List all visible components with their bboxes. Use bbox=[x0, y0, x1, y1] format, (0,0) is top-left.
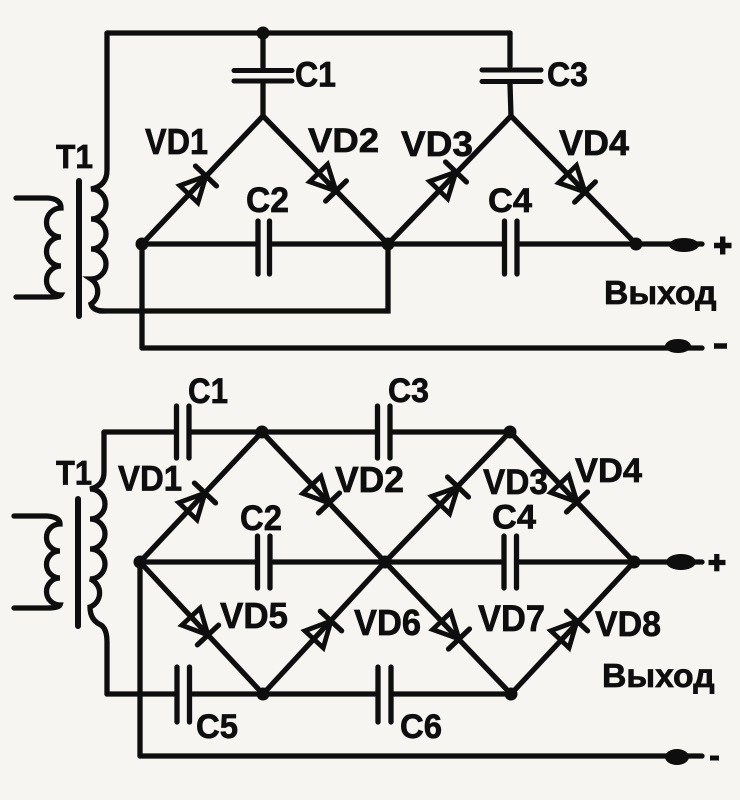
diode VD7 bbox=[431, 611, 469, 649]
wire top rail bbox=[107, 30, 510, 35]
svg-text:VD2: VD2 bbox=[308, 122, 379, 160]
wire edge VD3 bbox=[385, 432, 510, 562]
wire edge VD1 bbox=[140, 432, 262, 562]
node junction left vertex bbox=[134, 556, 147, 569]
svg-text:C1: C1 bbox=[295, 56, 336, 95]
svg-text:C6: C6 bbox=[400, 708, 442, 746]
svg-text:T1: T1 bbox=[56, 455, 92, 493]
capacitor C6 bbox=[378, 667, 391, 722]
minus sign bottom circuit bbox=[710, 756, 719, 761]
wire edge VD4 bbox=[510, 432, 634, 562]
svg-text:VD1: VD1 bbox=[145, 121, 208, 162]
wire mid rail segment C bbox=[519, 241, 702, 246]
transformer T1 primary winding bbox=[16, 198, 61, 297]
capacitor C5 bbox=[177, 667, 190, 722]
capacitor C2 (bottom) bbox=[258, 536, 271, 588]
svg-text:VD6: VD6 bbox=[354, 602, 421, 643]
node junction center vertex bbox=[379, 556, 392, 569]
svg-text:C1: C1 bbox=[188, 372, 228, 411]
wire bottom rail segment C bbox=[393, 691, 511, 696]
wire top rail (bottom circuit) segment B bbox=[192, 429, 376, 434]
diode VD1 bbox=[178, 166, 216, 204]
diode VD4 (bottom) bbox=[549, 474, 587, 512]
svg-text:Выход: Выход bbox=[602, 657, 715, 694]
capacitor C4 bbox=[505, 221, 518, 274]
node junction bottom vertex 2 bbox=[505, 688, 518, 701]
svg-text:C3: C3 bbox=[547, 56, 588, 94]
node junction right vertex bbox=[628, 556, 641, 569]
diode VD4 bbox=[557, 164, 595, 202]
capacitor C4 (bottom) bbox=[504, 536, 517, 588]
diode VD3 (bottom) bbox=[430, 477, 468, 515]
output terminal minus bbox=[665, 339, 691, 353]
svg-text:C4: C4 bbox=[492, 499, 536, 537]
node junction top vertex 2 bbox=[504, 426, 517, 439]
wire left drop to minus rail bbox=[139, 244, 144, 348]
wire C1 stub lower bbox=[260, 84, 265, 116]
wire edge VD6 bbox=[263, 562, 385, 694]
wire mid rail (bottom circuit) segment C bbox=[519, 559, 702, 564]
svg-text:C3: C3 bbox=[388, 372, 429, 410]
svg-text:VD1: VD1 bbox=[118, 460, 182, 499]
wire leg VD1 bbox=[142, 116, 263, 244]
plus sign top circuit bbox=[714, 237, 732, 255]
diode VD5 bbox=[180, 607, 218, 645]
capacitor C3 (bottom) bbox=[378, 406, 391, 458]
node junction at C1 top bbox=[257, 27, 270, 40]
wire bottom rail segment A bbox=[107, 691, 175, 696]
svg-text:C4: C4 bbox=[488, 182, 532, 220]
plus sign bottom circuit bbox=[709, 554, 726, 571]
svg-text:Выход: Выход bbox=[604, 274, 717, 311]
svg-text:VD3: VD3 bbox=[401, 125, 473, 164]
wire edge VD7 bbox=[385, 562, 511, 694]
wire minus rail bbox=[142, 345, 702, 350]
output terminal plus bbox=[669, 238, 699, 252]
wire minus rail (bottom) bbox=[140, 753, 702, 758]
wire left drop to minus rail (bottom) bbox=[137, 562, 142, 756]
transformer T1 primary winding (bottom) bbox=[14, 516, 60, 608]
wire leg VD2 bbox=[263, 116, 388, 244]
svg-text:C2: C2 bbox=[246, 181, 289, 220]
wire C3 stub upper bbox=[507, 33, 512, 66]
svg-text:VD2: VD2 bbox=[335, 459, 404, 500]
diode VD2 bbox=[308, 163, 346, 201]
svg-text:VD5: VD5 bbox=[220, 595, 288, 636]
node junction left bbox=[136, 238, 149, 251]
svg-text:C2: C2 bbox=[240, 499, 282, 538]
wire mid rail (bottom circuit) segment A bbox=[140, 559, 255, 564]
capacitor C1 bbox=[234, 71, 292, 82]
node junction top vertex 1 bbox=[256, 426, 269, 439]
svg-text:T1: T1 bbox=[56, 138, 93, 175]
wire edge VD2 bbox=[262, 432, 385, 562]
transformer T1 secondary winding bbox=[91, 33, 107, 311]
wire top rail (bottom circuit) segment A bbox=[104, 429, 174, 434]
wire leg VD3 bbox=[388, 116, 511, 244]
transformer T1 core bbox=[76, 181, 82, 316]
output terminal minus (bottom) bbox=[665, 749, 689, 765]
svg-text:VD4: VD4 bbox=[559, 124, 630, 163]
wire top rail (bottom circuit) segment C bbox=[393, 429, 511, 434]
svg-text:VD8: VD8 bbox=[595, 605, 661, 644]
output terminal plus (bottom) bbox=[666, 554, 696, 570]
svg-text:VD3: VD3 bbox=[483, 463, 548, 502]
diode VD8 bbox=[549, 611, 587, 649]
wire leg VD4 bbox=[511, 116, 636, 244]
wire mid rail (bottom circuit) segment B bbox=[273, 559, 503, 564]
node junction middle bbox=[382, 238, 395, 251]
diode VD1 (bottom) bbox=[177, 483, 215, 521]
capacitor C1 (bottom) bbox=[177, 406, 190, 458]
diode VD2 (bottom) bbox=[301, 475, 339, 513]
svg-text:C5: C5 bbox=[196, 708, 238, 746]
svg-text:VD7: VD7 bbox=[478, 598, 545, 639]
transformer T1 core (bottom) bbox=[75, 499, 81, 626]
diode VD3 bbox=[428, 162, 466, 200]
wire mid rail segment B bbox=[272, 241, 502, 246]
wire mid rail segment A bbox=[142, 241, 255, 246]
wire edge VD5 bbox=[140, 562, 263, 694]
node junction right bbox=[630, 238, 643, 251]
minus sign top circuit bbox=[714, 343, 727, 349]
wire C3 stub lower bbox=[510, 84, 511, 116]
wire edge VD8 bbox=[511, 562, 634, 694]
wire bottom rail segment B bbox=[192, 691, 376, 696]
wire secondary return bbox=[100, 244, 388, 311]
wire C1 stub upper bbox=[260, 33, 265, 67]
transformer T1 secondary winding (bottom) bbox=[90, 432, 107, 694]
diode VD6 bbox=[303, 611, 341, 649]
svg-text:VD4: VD4 bbox=[575, 452, 642, 490]
capacitor C2 bbox=[258, 221, 270, 274]
capacitor C3 bbox=[482, 70, 541, 82]
node junction bottom vertex 1 bbox=[257, 688, 270, 701]
